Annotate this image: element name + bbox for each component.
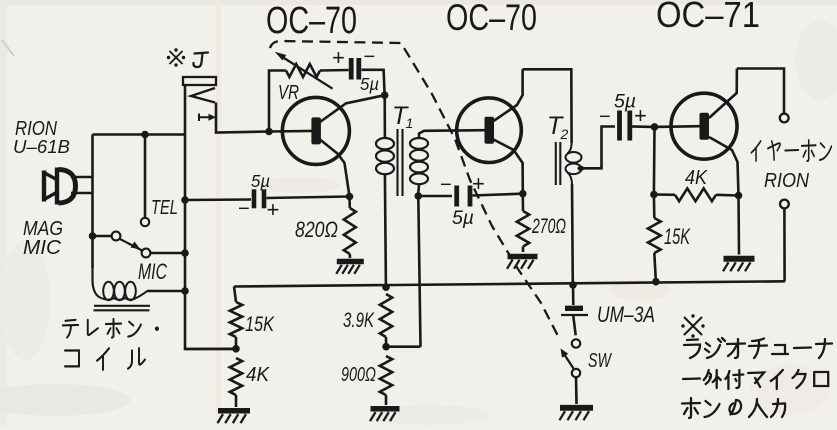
wire emitter node down to T1 primary: [383, 95, 386, 137]
transformer T1 core: [398, 129, 403, 196]
wire coil to input bus: [147, 290, 185, 293]
wire MIC contact to input bus: [151, 252, 186, 255]
ground below SW: [560, 408, 594, 420]
label 5u (C4): [614, 92, 636, 113]
label 5u (C3): [452, 208, 474, 229]
svg-text:MIC: MIC: [138, 259, 167, 284]
wire Q3 emitter to earphone top: [737, 69, 784, 114]
svg-text:+: +: [472, 171, 485, 196]
wire Q3 base node down: [653, 127, 656, 195]
wire TEL contact stub: [144, 135, 147, 218]
label - (C1 negative): [364, 46, 376, 68]
label 15K (stage3): [664, 224, 691, 249]
wire pole stub: [93, 235, 112, 238]
label T1: [392, 102, 413, 131]
svg-text:UM–3A: UM–3A: [597, 302, 655, 327]
svg-text:OC–70: OC–70: [446, 0, 537, 38]
wire Q3 collector to ground: [737, 196, 740, 255]
label TEL: [151, 196, 178, 219]
wire C4 to Q3 base node: [632, 125, 655, 128]
wire negative supply rail: [234, 281, 785, 286]
label - (C4 negative): [599, 106, 611, 128]
label OC-70 first stage: [266, 0, 357, 42]
reference mark (komejirushi) for jack: [167, 48, 185, 66]
wire T1 primary bottom to rail: [385, 175, 386, 286]
wire 270 to ground: [522, 247, 525, 253]
label J: [193, 53, 208, 68]
svg-text:+: +: [332, 45, 345, 70]
wire Q3 collector lead: [709, 137, 739, 196]
wire mic bottom lead: [71, 192, 93, 195]
wire 4K1 to ground: [235, 395, 238, 407]
label 4K (stage3): [685, 166, 708, 189]
label U-61B: [13, 136, 70, 157]
wire 820 to ground: [348, 254, 351, 258]
wire C3 to Q2 collector node: [473, 194, 523, 196]
wire 4K left lead: [654, 193, 675, 196]
wire battery to SW: [573, 316, 575, 335]
wire Q3 base lead: [655, 125, 701, 128]
node 3.9K/900 junction: [382, 343, 390, 351]
svg-text:−: −: [440, 174, 452, 196]
capacitor C2 5u (TEL coupling): [254, 189, 264, 208]
svg-text:1: 1: [406, 115, 414, 131]
label RION (mic model): [15, 117, 57, 140]
svg-text:820Ω: 820Ω: [295, 217, 338, 242]
svg-text:−: −: [599, 106, 611, 128]
wire rail end to 15K1: [234, 287, 236, 303]
note line2 (gai-fu-ma-i-ku-ro: external mic): [683, 370, 828, 389]
note line1 (ra-ji-o-chu-u-na: radio tuner): [684, 338, 832, 358]
label UM-3A: [597, 302, 655, 327]
wire Q1 collector lead: [320, 140, 350, 197]
transformer T1 secondary winding (right): [410, 138, 428, 184]
wire mic to jack (top horizontal): [93, 133, 186, 136]
node Q3 base junction: [651, 123, 659, 131]
svg-text:15K: 15K: [664, 224, 691, 249]
resistor 4K stage3: [675, 188, 716, 201]
wire Q1 emitter lead: [320, 95, 385, 122]
node TEL wire junction: [141, 131, 149, 139]
label MIC: [23, 236, 61, 259]
svg-text:2: 2: [560, 126, 569, 142]
svg-text:5µ: 5µ: [614, 92, 636, 113]
label - (C3 negative): [440, 174, 452, 196]
note line3 (ho-n-no nyu-ryoku: input): [682, 398, 785, 418]
node Q1 collector junction: [346, 193, 354, 201]
inductor telephone pickup coil: [93, 266, 148, 300]
transformer T2 core: [556, 142, 561, 185]
potentiometer VR (volume control): [286, 64, 320, 77]
node Q1 emitter junction: [381, 91, 389, 99]
svg-text:5µ: 5µ: [360, 74, 379, 94]
svg-text:OC–70: OC–70: [266, 0, 357, 42]
switch blade TEL/MIC selector: [120, 239, 142, 251]
battery BT1 UM-3A: [561, 308, 588, 315]
svg-text:SW: SW: [588, 349, 613, 372]
label telephone coil line1 (te-re-ho-n, katakana): [63, 319, 159, 338]
wire rail to battery: [572, 285, 575, 305]
contact TEL (open circle): [141, 218, 149, 226]
wire VR to C1: [320, 69, 349, 72]
transistor Q3 OC-71: [671, 93, 737, 159]
wire 900 to ground: [385, 395, 388, 405]
wire bus bottom to 15K/4K node: [185, 347, 236, 350]
node Q1 base / VR / jack junction: [265, 128, 273, 136]
wire T2 tap to C4: [583, 127, 615, 169]
label earphone (i-ya-dash-ho-n, katakana): [751, 140, 831, 161]
label + (C3 positive): [472, 171, 485, 196]
telephone coil core lines: [94, 306, 151, 311]
contact pole (open circle): [112, 232, 121, 241]
wire mic top lead: [71, 176, 93, 179]
ground below 270 ohm: [507, 257, 538, 269]
transformer T2 winding: [566, 143, 582, 184]
svg-text:U–61B: U–61B: [13, 136, 70, 157]
wire C1 to emitter node: [362, 70, 385, 92]
label MIC (switch contact): [138, 259, 167, 284]
wire T1 secondary bottom to bias node: [417, 185, 420, 193]
wire 15K top lead: [653, 195, 656, 219]
switch SW top contact: [572, 339, 580, 347]
resistor 15K stage3: [648, 218, 661, 253]
capacitor C3 5u (bypass): [457, 186, 470, 207]
wire T1 secondary top to Q2 base: [419, 130, 486, 138]
reference mark (komejirushi) for note: [681, 314, 704, 337]
wire Q2 collector lead (lower): [494, 140, 523, 194]
jack J plug body: [183, 77, 216, 85]
label SW: [588, 349, 613, 372]
node bus-TEL cap junction: [181, 196, 189, 204]
svg-text:VR: VR: [278, 81, 299, 104]
resistor 820 ohm: [344, 208, 356, 254]
switch SW blade: [561, 349, 574, 369]
contact MIC (open circle): [142, 249, 151, 258]
transistor Q1 OC-70: [282, 97, 349, 164]
jack J make-contact arrow: [199, 114, 216, 122]
label OC-70 second stage: [446, 0, 537, 38]
switch SW bottom contact: [572, 369, 580, 377]
node 4K left junction: [650, 191, 658, 199]
label 15K (stage1): [245, 312, 275, 336]
wire VR left leg: [269, 71, 286, 132]
label 270 ohm: [531, 214, 566, 238]
wire 270 top lead: [521, 194, 524, 211]
VR wiper arrow: [275, 52, 333, 89]
wire 4K right lead: [716, 194, 739, 197]
label MAG: [23, 217, 63, 240]
node rail-15K3 junction: [652, 278, 660, 286]
wire 3.9K to node: [385, 337, 388, 347]
label T2: [547, 112, 569, 142]
node Q2 collector junction: [519, 190, 527, 198]
ground below Q3 collector: [723, 259, 755, 272]
node 15K/4K junction: [232, 345, 240, 353]
wire mic vertical: [91, 135, 94, 269]
ground below 900 ohm: [370, 409, 400, 421]
node bus-MIC junction: [181, 249, 189, 257]
node switch pole junction: [89, 232, 97, 240]
wire Q1 base lead: [269, 130, 313, 133]
capacitor C4 5u (coupling): [620, 111, 630, 141]
svg-text:−: −: [238, 198, 250, 220]
svg-text:5µ: 5µ: [452, 208, 474, 229]
ground below 820 ohm: [336, 262, 364, 274]
svg-text:15K: 15K: [245, 312, 275, 336]
svg-text:4K: 4K: [246, 363, 270, 386]
label 3.9K: [343, 308, 375, 332]
label 4K (stage1): [246, 363, 270, 386]
label 820 ohm: [295, 217, 338, 242]
node rail-battery junction: [569, 281, 577, 289]
wire Q2 collector top to T2: [523, 69, 572, 143]
wire Q2 emitter lead: [494, 69, 523, 121]
label telephone coil line2 (ko-i-ru, katakana): [65, 348, 145, 369]
svg-text:+: +: [267, 197, 280, 222]
node bus-coil junction: [181, 287, 189, 295]
resistor 270 ohm: [517, 211, 529, 247]
svg-text:4K: 4K: [685, 166, 708, 189]
transistor Q2 OC-70: [457, 98, 522, 163]
wire C2 to collector node: [267, 197, 350, 199]
earphone terminal bottom: [780, 200, 789, 209]
node T1 secondary bottom junction: [415, 192, 423, 200]
wire T1 bottom junction down to divider node: [418, 196, 420, 347]
resistor 4K stage1: [230, 358, 242, 395]
earphone terminal top: [780, 114, 789, 123]
resistor 900 ohm: [380, 356, 392, 395]
microphone MAG MIC (RION U-61B): [43, 168, 76, 205]
wire T2 down to rail: [571, 184, 574, 285]
wire jack contact to Q1 base node: [216, 103, 269, 133]
wire input bus (jack sleeve, left vertical): [185, 85, 236, 349]
node Q3 collector / 4K junction: [735, 192, 743, 200]
label - (C2 negative): [238, 198, 250, 220]
capacitor C1 5u (AGC feedback): [351, 58, 359, 80]
label 5u (C1): [360, 74, 379, 94]
wire 15K1 to node: [235, 337, 238, 349]
wire 820 top lead: [348, 197, 351, 209]
label 5u (C2): [251, 171, 270, 191]
wire bias node to C3: [418, 195, 452, 198]
jack J spring contact: [191, 88, 215, 103]
wire 15K to rail: [654, 253, 656, 282]
ground below 4K stage1: [218, 411, 251, 423]
T2 tap terminal: [577, 166, 584, 171]
svg-text:+: +: [634, 103, 647, 128]
wire Q3 emitter lead: [709, 69, 737, 119]
label + (C4 positive): [634, 103, 647, 128]
label + (C2 positive): [267, 197, 280, 222]
label + (C1 positive): [332, 45, 345, 70]
label OC-71 third stage: [656, 0, 760, 35]
svg-text:5µ: 5µ: [251, 171, 270, 191]
svg-text:270Ω: 270Ω: [531, 214, 566, 238]
svg-text:OC–71: OC–71: [656, 0, 760, 35]
svg-text:900Ω: 900Ω: [341, 363, 376, 386]
wire SW to ground: [575, 377, 578, 404]
wire earphone bottom to rail: [783, 208, 786, 281]
node rail-3.9K junction: [382, 283, 390, 291]
dashed link VR to SW (ganged power switch): [270, 41, 558, 336]
transformer T1 primary winding (left): [376, 138, 394, 174]
svg-text:RION: RION: [764, 169, 809, 192]
label RION (earphone): [764, 169, 809, 192]
label 900 ohm: [341, 363, 376, 386]
resistor 3.9K: [380, 294, 392, 337]
svg-text:3.9K: 3.9K: [343, 308, 375, 332]
resistor 15K stage1: [230, 302, 242, 337]
svg-text:MIC: MIC: [23, 236, 61, 259]
label VR: [278, 81, 299, 104]
wire bus to C2: [185, 198, 251, 201]
wire divider node link: [386, 345, 420, 348]
svg-text:−: −: [364, 46, 376, 68]
svg-text:TEL: TEL: [151, 196, 178, 219]
